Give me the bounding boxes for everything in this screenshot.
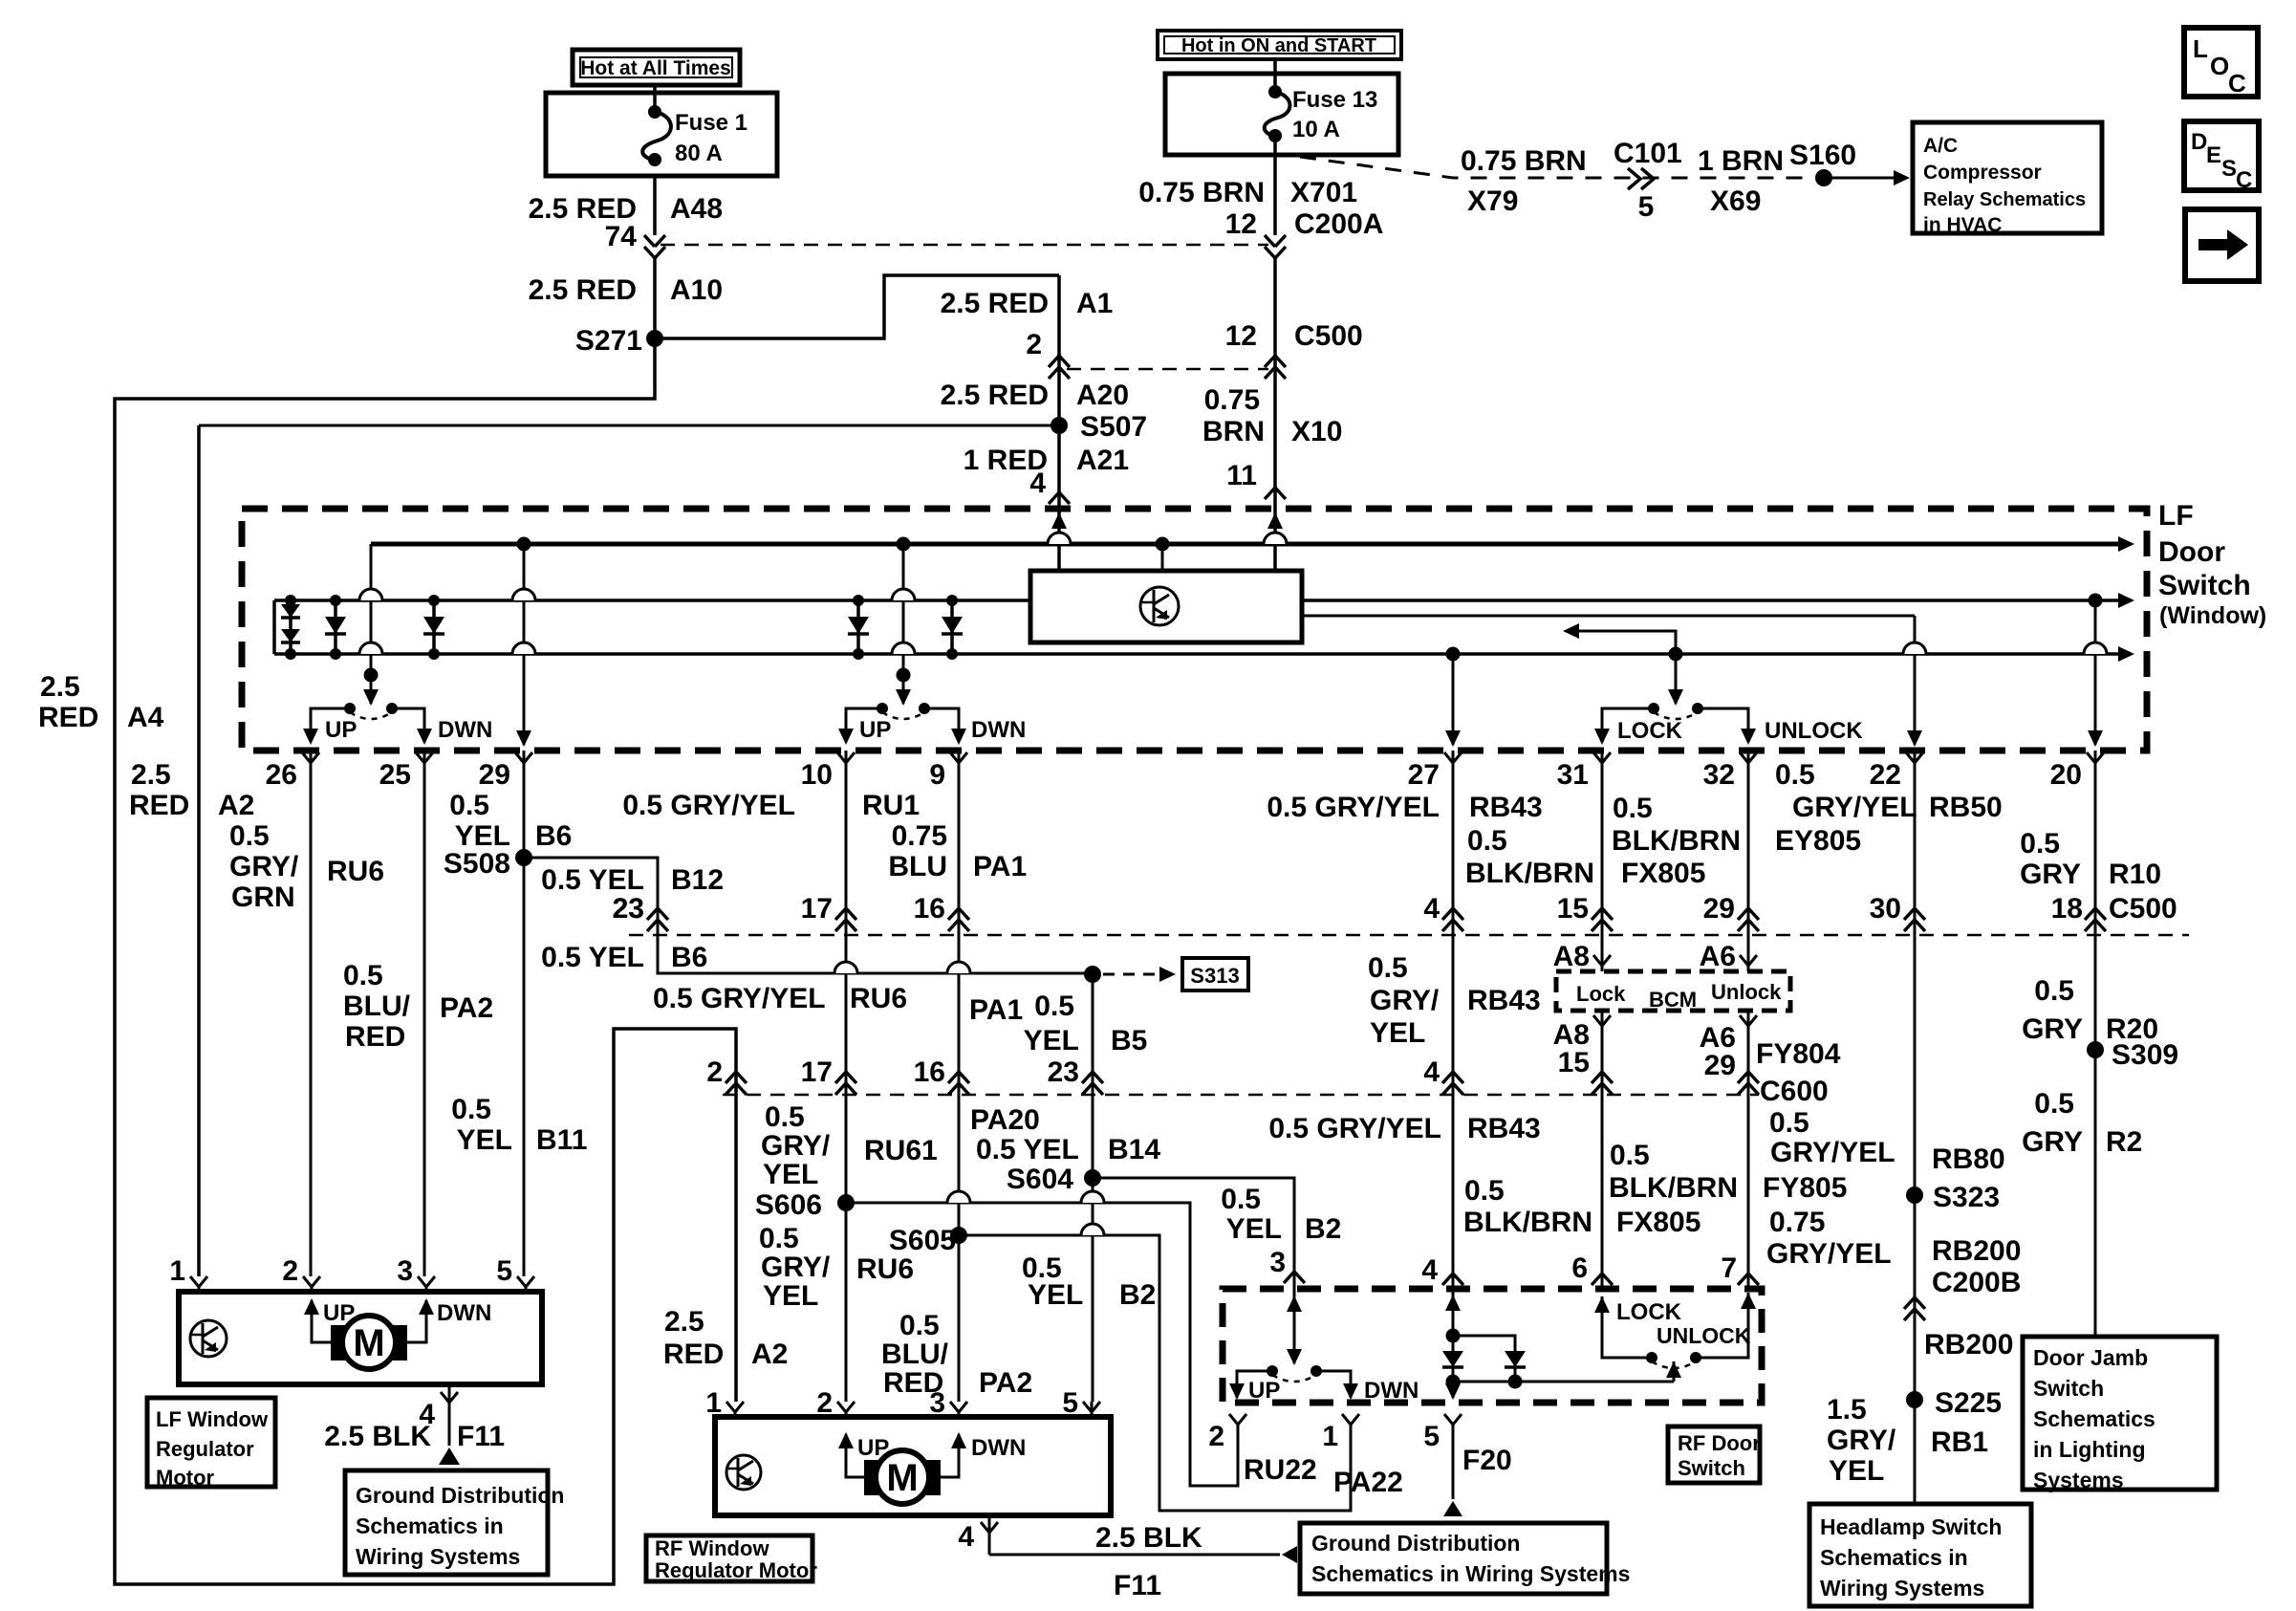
wire lock return arrow bbox=[1578, 631, 1676, 654]
wire S605 to PA22 bbox=[959, 1235, 1351, 1511]
svg-text:0.5: 0.5 bbox=[1368, 952, 1408, 984]
connector chevrons C101 bbox=[1628, 168, 1654, 189]
svg-text:S507: S507 bbox=[1080, 411, 1147, 443]
svg-text:2: 2 bbox=[1026, 329, 1042, 360]
svg-text:A2: A2 bbox=[218, 790, 254, 821]
svg-text:2: 2 bbox=[282, 1255, 298, 1287]
svg-text:EY805: EY805 bbox=[1775, 825, 1861, 857]
svg-text:5: 5 bbox=[496, 1255, 512, 1287]
diode D1 (double) bbox=[289, 600, 292, 654]
svg-text:B6: B6 bbox=[671, 942, 707, 973]
svg-text:RF Door: RF Door bbox=[1678, 1431, 1761, 1455]
wire window module feed left bbox=[1058, 512, 1061, 571]
switch SW2 UP/DWN bbox=[877, 703, 888, 714]
svg-text:2.5: 2.5 bbox=[40, 671, 80, 703]
svg-text:5: 5 bbox=[1062, 1387, 1078, 1419]
svg-text:Wiring Systems: Wiring Systems bbox=[356, 1544, 520, 1569]
svg-text:S309: S309 bbox=[2112, 1039, 2178, 1071]
svg-text:Switch: Switch bbox=[1678, 1456, 1745, 1480]
svg-text:4: 4 bbox=[1423, 893, 1440, 925]
wire LF motor stubs bbox=[198, 1287, 201, 1294]
svg-text:4: 4 bbox=[1029, 468, 1046, 499]
connector chevrons C200A left bbox=[644, 235, 665, 247]
diode D5 bbox=[950, 600, 954, 654]
connector chevrons A1/C500 bbox=[1049, 356, 1070, 367]
connector chevrons C600 pin 4 bbox=[1442, 1072, 1463, 1083]
svg-text:GRY/: GRY/ bbox=[1370, 985, 1440, 1016]
connector pins 2 1 5 below RF box bbox=[1229, 1414, 1246, 1425]
label box: Hot in ON and START bbox=[1158, 31, 1401, 59]
svg-text:PA22: PA22 bbox=[1333, 1467, 1403, 1498]
svg-text:0.5: 0.5 bbox=[1467, 825, 1507, 857]
svg-text:A8: A8 bbox=[1553, 941, 1590, 972]
svg-text:S271: S271 bbox=[575, 325, 642, 357]
wire module out mid bbox=[1302, 615, 1915, 618]
svg-text:S605: S605 bbox=[889, 1225, 956, 1256]
svg-text:Motor: Motor bbox=[156, 1466, 215, 1490]
svg-text:PA20: PA20 bbox=[970, 1104, 1040, 1136]
dashed connector line C200A bbox=[661, 244, 1268, 247]
connector pins RF motor 1 2 3 5 bbox=[726, 1402, 744, 1412]
wire FY804 column (pin32/BCM A6) bbox=[1747, 751, 1750, 971]
connector chevrons C500 pin 30 bbox=[1904, 908, 1925, 920]
connector chevrons C600 pin 17 bbox=[835, 1072, 856, 1083]
dashed wire to C101 bbox=[1300, 157, 1814, 178]
connector chevrons C600 pin 23 bbox=[1082, 1072, 1103, 1083]
wire RF motor stubs bbox=[734, 1412, 737, 1419]
svg-text:0.5: 0.5 bbox=[1775, 759, 1815, 791]
connector chevron pin3 bbox=[1284, 1272, 1305, 1283]
wire window module feed mid bbox=[1161, 544, 1164, 571]
LF motor UP arrow bbox=[312, 1300, 331, 1342]
connector pin 9 bbox=[950, 752, 967, 763]
reference box: Door Jamb Switch Schematics in Lighting Systems bbox=[2023, 1337, 2217, 1490]
svg-text:DWN: DWN bbox=[438, 717, 492, 743]
wire internal bus2 bbox=[274, 652, 2118, 656]
connector chevrons C600 pin 16 bbox=[948, 1072, 969, 1083]
svg-text:C: C bbox=[2236, 167, 2252, 193]
arrow lock feed bbox=[1668, 689, 1683, 706]
svg-text:Relay Schematics: Relay Schematics bbox=[1923, 189, 2086, 210]
svg-text:BCM: BCM bbox=[1649, 988, 1697, 1012]
connector chevrons A2 at C600 bbox=[726, 1072, 747, 1083]
svg-text:GRY/: GRY/ bbox=[761, 1252, 831, 1283]
svg-text:RED: RED bbox=[129, 790, 189, 821]
wire S160 to A/C box bbox=[1824, 177, 1895, 180]
switch SW3 LOCK/UNLOCK bbox=[1648, 703, 1659, 714]
splice S606 bbox=[837, 1194, 855, 1211]
wire pin27 feed bbox=[1452, 654, 1455, 745]
svg-text:PA2: PA2 bbox=[440, 992, 493, 1024]
svg-text:BLU: BLU bbox=[888, 851, 947, 882]
svg-text:Door: Door bbox=[2158, 536, 2225, 568]
svg-text:29: 29 bbox=[1703, 893, 1735, 925]
wire RU6 column (pin26 to LF motor 2) bbox=[310, 751, 313, 1276]
splice S604 bbox=[1084, 1169, 1101, 1186]
svg-text:4: 4 bbox=[958, 1521, 974, 1553]
reference box: LF Window Regulator Motor label bbox=[147, 1398, 275, 1487]
svg-text:2: 2 bbox=[1208, 1421, 1224, 1452]
svg-text:6: 6 bbox=[1571, 1252, 1588, 1284]
svg-text:A10: A10 bbox=[670, 274, 723, 306]
connector chevrons X10/C500 bbox=[1265, 356, 1286, 367]
svg-text:in HVAC: in HVAC bbox=[1923, 214, 2002, 236]
svg-text:YEL: YEL bbox=[763, 1280, 818, 1312]
svg-text:B12: B12 bbox=[671, 864, 724, 896]
svg-text:B14: B14 bbox=[1108, 1134, 1160, 1165]
svg-text:GRY/: GRY/ bbox=[229, 851, 299, 882]
arrow sw1 feed bbox=[363, 689, 379, 706]
wire S507 horizontal bbox=[199, 425, 1059, 427]
svg-text:12: 12 bbox=[1225, 208, 1257, 240]
LOC corner box bbox=[2184, 28, 2258, 97]
connector chevrons C200A right bbox=[1265, 235, 1286, 247]
svg-text:RB43: RB43 bbox=[1467, 985, 1541, 1016]
wire RF switch feed arrow bbox=[1287, 1295, 1302, 1312]
svg-text:10: 10 bbox=[801, 759, 833, 791]
svg-text:0.5: 0.5 bbox=[229, 820, 270, 852]
svg-text:RU6: RU6 bbox=[856, 1253, 914, 1285]
svg-text:UP: UP bbox=[1248, 1378, 1280, 1404]
connector chevron X10 into LF box bbox=[1265, 488, 1286, 499]
svg-text:32: 32 bbox=[1703, 759, 1735, 791]
svg-text:DWN: DWN bbox=[1364, 1378, 1419, 1404]
svg-text:FX805: FX805 bbox=[1621, 858, 1705, 889]
svg-text:0.5: 0.5 bbox=[1034, 991, 1074, 1022]
svg-text:RU22: RU22 bbox=[1244, 1454, 1317, 1486]
svg-text:O: O bbox=[2210, 52, 2229, 80]
svg-text:5: 5 bbox=[1638, 191, 1655, 223]
svg-text:1: 1 bbox=[169, 1255, 185, 1287]
connector chevrons C500 pin 18 bbox=[2085, 908, 2106, 920]
svg-text:GRY/YEL: GRY/YEL bbox=[1792, 792, 1917, 823]
wire switch2 feed bbox=[902, 544, 905, 704]
connector pin 20 bbox=[2087, 752, 2104, 763]
connector Y pin4 RF bbox=[981, 1522, 998, 1533]
svg-text:Fuse 1: Fuse 1 bbox=[675, 110, 747, 136]
svg-text:PA1: PA1 bbox=[969, 994, 1023, 1026]
diode RF D6 bbox=[1442, 1351, 1463, 1367]
svg-text:0.5: 0.5 bbox=[1464, 1175, 1505, 1207]
svg-text:RB43: RB43 bbox=[1467, 1113, 1541, 1144]
svg-text:LF: LF bbox=[2158, 500, 2194, 532]
svg-text:Switch: Switch bbox=[2158, 570, 2251, 601]
svg-text:Lock: Lock bbox=[1576, 982, 1626, 1006]
svg-text:X10: X10 bbox=[1291, 416, 1342, 447]
svg-text:RB43: RB43 bbox=[1469, 792, 1543, 823]
svg-text:22: 22 bbox=[1870, 759, 1901, 791]
svg-text:YEL: YEL bbox=[1226, 1213, 1282, 1245]
svg-text:0.75: 0.75 bbox=[892, 820, 947, 852]
svg-text:3: 3 bbox=[1269, 1247, 1286, 1278]
svg-text:FY804: FY804 bbox=[1756, 1038, 1841, 1070]
wire RB50/RB200 column (pin22 down) bbox=[1914, 751, 1917, 1504]
wire fuse13 feed bbox=[1273, 57, 1277, 94]
svg-text:0.5: 0.5 bbox=[449, 790, 489, 821]
svg-text:0.5: 0.5 bbox=[343, 960, 383, 991]
connector pin 22 bbox=[1906, 752, 1923, 763]
svg-text:17: 17 bbox=[801, 1056, 833, 1088]
svg-text:0.5: 0.5 bbox=[759, 1223, 799, 1254]
connector chevrons C500 pin 4 bbox=[1442, 908, 1463, 920]
reference box: Headlamp Switch Schematics in Wiring Systems bbox=[1809, 1504, 2031, 1606]
svg-text:0.5 GRY/YEL: 0.5 GRY/YEL bbox=[1268, 1113, 1441, 1144]
connector pin 27 bbox=[1444, 752, 1462, 763]
svg-text:S160: S160 bbox=[1789, 140, 1856, 171]
wire fuse1 feed bbox=[653, 85, 657, 114]
svg-text:2.5 RED: 2.5 RED bbox=[529, 274, 637, 306]
wire internal top bus bbox=[371, 542, 2118, 547]
svg-text:S604: S604 bbox=[1007, 1164, 1073, 1195]
wire S606 to RU22 bbox=[846, 1203, 1238, 1486]
svg-text:1 BRN: 1 BRN bbox=[1698, 145, 1784, 177]
motor M1 (LF) bbox=[331, 1325, 352, 1361]
LF Door Switch dashed box bbox=[242, 509, 2147, 751]
svg-text:Hot in ON and START: Hot in ON and START bbox=[1181, 35, 1376, 56]
svg-text:2.5 RED: 2.5 RED bbox=[941, 380, 1049, 411]
connector chevrons C500 pin 29 bbox=[1738, 908, 1759, 920]
svg-text:S323: S323 bbox=[1933, 1182, 2000, 1213]
dashed connector line C600 main bbox=[723, 1094, 1759, 1097]
connector Y into BCM A6 bbox=[1740, 955, 1757, 966]
junction dot sw2 bbox=[897, 668, 911, 683]
svg-text:0.5: 0.5 bbox=[1769, 1107, 1809, 1139]
svg-text:BLK/BRN: BLK/BRN bbox=[1463, 1207, 1592, 1238]
switch SW1 UP/DWN bbox=[344, 703, 356, 714]
wire S604 to RF switch bbox=[1093, 1178, 1294, 1363]
svg-text:0.5 YEL: 0.5 YEL bbox=[541, 942, 644, 973]
svg-text:GRY: GRY bbox=[2022, 1126, 2083, 1158]
svg-text:Schematics in Wiring Systems: Schematics in Wiring Systems bbox=[1311, 1561, 1630, 1586]
diode D2 bbox=[334, 600, 337, 654]
wire pin29 feed bbox=[523, 544, 526, 745]
svg-text:B6: B6 bbox=[535, 820, 572, 852]
svg-text:A1: A1 bbox=[1076, 288, 1113, 319]
svg-text:RED: RED bbox=[38, 702, 98, 733]
svg-text:Schematics: Schematics bbox=[2033, 1406, 2155, 1431]
svg-text:Systems: Systems bbox=[2033, 1468, 2124, 1492]
svg-text:3: 3 bbox=[397, 1255, 413, 1287]
connector pin 25 bbox=[416, 752, 433, 763]
reference box S313 bbox=[1182, 958, 1248, 991]
RF Door Switch dashed box bbox=[1223, 1289, 1762, 1403]
svg-text:S508: S508 bbox=[444, 848, 510, 880]
label box: Hot at All Times bbox=[573, 50, 740, 85]
svg-text:4: 4 bbox=[1423, 1056, 1440, 1088]
svg-text:2: 2 bbox=[706, 1056, 723, 1088]
svg-text:0.75: 0.75 bbox=[1769, 1207, 1825, 1238]
fuse F13 element bbox=[1268, 85, 1282, 98]
svg-text:C500: C500 bbox=[1294, 320, 1363, 352]
wire X701 segment bbox=[1273, 136, 1277, 235]
wire LF motor pin4 bbox=[448, 1384, 451, 1446]
svg-text:YEL: YEL bbox=[457, 1124, 512, 1156]
svg-text:LF Window: LF Window bbox=[156, 1407, 269, 1431]
wire hops mid-band bbox=[834, 962, 857, 973]
wire hop crossings bbox=[359, 589, 382, 600]
svg-text:A/C: A/C bbox=[1923, 135, 1958, 157]
diode RF D7 bbox=[1505, 1351, 1526, 1367]
svg-text:YEL: YEL bbox=[1028, 1279, 1083, 1311]
connector Y pin4 LF bbox=[441, 1392, 458, 1403]
svg-text:15: 15 bbox=[1557, 893, 1589, 925]
svg-text:B2: B2 bbox=[1305, 1213, 1341, 1245]
svg-text:0.5 YEL: 0.5 YEL bbox=[541, 864, 644, 896]
svg-text:2.5: 2.5 bbox=[664, 1306, 704, 1338]
wire PA2 column (pin25 to LF motor 3) bbox=[423, 751, 426, 1276]
svg-text:30: 30 bbox=[1870, 893, 1901, 925]
svg-text:LOCK: LOCK bbox=[1616, 1299, 1682, 1325]
svg-text:R2: R2 bbox=[2106, 1126, 2142, 1158]
wire RF unlock common bbox=[1453, 1381, 1674, 1383]
svg-text:C500: C500 bbox=[2109, 893, 2177, 925]
svg-text:0.5 GRY/YEL: 0.5 GRY/YEL bbox=[653, 983, 826, 1014]
svg-text:0.5: 0.5 bbox=[2034, 1088, 2074, 1120]
svg-text:2.5: 2.5 bbox=[131, 759, 171, 791]
splice S323 bbox=[1906, 1186, 1923, 1204]
LF window regulator motor box bbox=[179, 1292, 542, 1384]
connector chevrons into RF box bbox=[1442, 1274, 1463, 1285]
svg-text:F20: F20 bbox=[1462, 1445, 1512, 1476]
svg-text:GRY/: GRY/ bbox=[1827, 1425, 1896, 1456]
svg-text:in Lighting: in Lighting bbox=[2033, 1437, 2146, 1462]
wire A10 segment bbox=[653, 258, 657, 338]
svg-text:0.5 YEL: 0.5 YEL bbox=[976, 1134, 1079, 1165]
svg-text:YEL: YEL bbox=[1829, 1455, 1884, 1487]
splice S271 bbox=[646, 330, 663, 347]
svg-text:27: 27 bbox=[1408, 759, 1440, 791]
diode D3 bbox=[432, 600, 436, 654]
svg-text:C600: C600 bbox=[1760, 1076, 1829, 1107]
wire pin22 feed bbox=[1914, 616, 1917, 745]
svg-text:GRY: GRY bbox=[2020, 859, 2081, 890]
wire FX805 column (pin31/BCM A8) bbox=[1601, 751, 1604, 971]
splice S225 bbox=[1906, 1391, 1923, 1408]
svg-text:YEL: YEL bbox=[763, 1159, 818, 1190]
svg-text:Ground Distribution: Ground Distribution bbox=[1311, 1531, 1520, 1556]
svg-text:4: 4 bbox=[1421, 1254, 1438, 1286]
transistor in RF motor bbox=[726, 1455, 761, 1490]
svg-text:C101: C101 bbox=[1614, 138, 1682, 169]
svg-text:2: 2 bbox=[816, 1387, 833, 1419]
svg-text:RB200: RB200 bbox=[1932, 1235, 2021, 1267]
wire B6/B11 column (pin29 to LF motor 5) bbox=[523, 751, 526, 1276]
svg-text:A6: A6 bbox=[1700, 941, 1736, 972]
wire X10 vertical bbox=[1273, 258, 1277, 571]
svg-text:Headlamp Switch: Headlamp Switch bbox=[1820, 1514, 2002, 1539]
svg-text:C200A: C200A bbox=[1294, 208, 1383, 240]
svg-text:FX805: FX805 bbox=[1616, 1207, 1700, 1238]
svg-text:0.75: 0.75 bbox=[1204, 384, 1260, 416]
svg-text:0.5: 0.5 bbox=[1610, 1140, 1650, 1171]
fuse block box (Fuse 13) bbox=[1165, 74, 1398, 155]
transistor in LF motor bbox=[190, 1320, 227, 1357]
wire A4 run bbox=[115, 338, 736, 1584]
diode D4 bbox=[856, 600, 860, 654]
svg-text:BLK/BRN: BLK/BRN bbox=[1465, 858, 1594, 889]
wire lock switch feed bbox=[1675, 654, 1678, 704]
dashed connector line C500 main bbox=[629, 934, 2189, 937]
svg-text:BLU/: BLU/ bbox=[881, 1339, 949, 1370]
svg-text:R10: R10 bbox=[2109, 859, 2161, 890]
svg-text:23: 23 bbox=[613, 893, 644, 925]
svg-text:B5: B5 bbox=[1111, 1025, 1147, 1056]
connector chevrons C500 pin 23 bbox=[647, 908, 668, 920]
splice S605 bbox=[950, 1227, 967, 1244]
wire PA1/PA20 column (pin9 to RF motor 3) bbox=[958, 751, 961, 1402]
connector chevrons C500 pin 15 bbox=[1592, 908, 1613, 920]
svg-text:Schematics in: Schematics in bbox=[356, 1513, 504, 1538]
reference box: RF Window Regulator Motor label bbox=[646, 1535, 812, 1581]
wire diode bank left end bbox=[272, 600, 276, 654]
wire F20 ground bbox=[1452, 1425, 1455, 1499]
svg-text:GRY: GRY bbox=[2022, 1013, 2083, 1045]
wire pin20 feed bbox=[2094, 600, 2097, 745]
svg-text:X701: X701 bbox=[1290, 177, 1357, 208]
splice S508 bbox=[515, 849, 532, 866]
LF window switch module box bbox=[1030, 571, 1302, 642]
svg-text:B2: B2 bbox=[1119, 1279, 1156, 1311]
fuse block box (Fuse 1) bbox=[546, 93, 777, 176]
svg-text:F11: F11 bbox=[1114, 1570, 1161, 1601]
svg-text:16: 16 bbox=[914, 1056, 945, 1088]
svg-text:9: 9 bbox=[929, 759, 945, 791]
svg-text:0.5: 0.5 bbox=[1221, 1184, 1261, 1215]
svg-text:S313: S313 bbox=[1190, 964, 1239, 988]
wire RU6/RU61 column (pin10 to RF motor 2) bbox=[845, 751, 848, 1402]
BCM dashed box bbox=[1556, 971, 1790, 1011]
switch RF LOCK/UNLOCK bbox=[1646, 1352, 1657, 1363]
svg-text:12: 12 bbox=[1225, 320, 1257, 352]
svg-text:Door Jamb: Door Jamb bbox=[2033, 1345, 2148, 1370]
RF motor DWN arrow bbox=[941, 1434, 959, 1477]
svg-text:UNLOCK: UNLOCK bbox=[1657, 1323, 1751, 1348]
RF window regulator motor box bbox=[715, 1417, 1111, 1515]
svg-text:0.5: 0.5 bbox=[451, 1094, 491, 1125]
svg-text:1: 1 bbox=[705, 1387, 722, 1419]
wire internal bus1 bbox=[274, 599, 1030, 602]
svg-text:RU6: RU6 bbox=[850, 983, 907, 1014]
transistor symbol in module bbox=[1140, 587, 1179, 625]
svg-text:1: 1 bbox=[1322, 1421, 1338, 1452]
wire R10/R2 column (pin20 down) bbox=[2094, 751, 2097, 1337]
connector chevrons C200B bbox=[1904, 1297, 1925, 1309]
svg-text:YEL: YEL bbox=[1370, 1017, 1425, 1049]
ground symbol LF bbox=[439, 1448, 460, 1465]
svg-text:20: 20 bbox=[2050, 759, 2082, 791]
svg-text:Switch: Switch bbox=[2033, 1376, 2104, 1401]
svg-text:RB200: RB200 bbox=[1924, 1329, 2013, 1361]
svg-text:S: S bbox=[2221, 156, 2237, 182]
svg-text:Hot at All Times: Hot at All Times bbox=[580, 57, 731, 79]
svg-text:A2: A2 bbox=[751, 1339, 788, 1370]
svg-text:25: 25 bbox=[379, 759, 411, 791]
svg-text:0.5 GRY/YEL: 0.5 GRY/YEL bbox=[1267, 792, 1440, 823]
svg-text:RB50: RB50 bbox=[1929, 792, 2003, 823]
svg-text:2.5 BLK: 2.5 BLK bbox=[324, 1421, 431, 1452]
svg-text:0.5: 0.5 bbox=[2034, 975, 2074, 1007]
svg-text:LOCK: LOCK bbox=[1617, 718, 1683, 744]
svg-text:0.75 BRN: 0.75 BRN bbox=[1461, 145, 1587, 177]
svg-text:Fuse 13: Fuse 13 bbox=[1292, 87, 1377, 113]
wire A48 segment bbox=[653, 176, 657, 235]
svg-text:B11: B11 bbox=[536, 1124, 587, 1156]
connector pin 29 bbox=[515, 752, 532, 763]
reference box: Ground Distribution Schematics in Wiring Systems (LF) bbox=[345, 1470, 548, 1575]
svg-text:FY805: FY805 bbox=[1763, 1172, 1847, 1204]
svg-text:RB80: RB80 bbox=[1932, 1143, 2005, 1175]
svg-text:A20: A20 bbox=[1076, 380, 1129, 411]
